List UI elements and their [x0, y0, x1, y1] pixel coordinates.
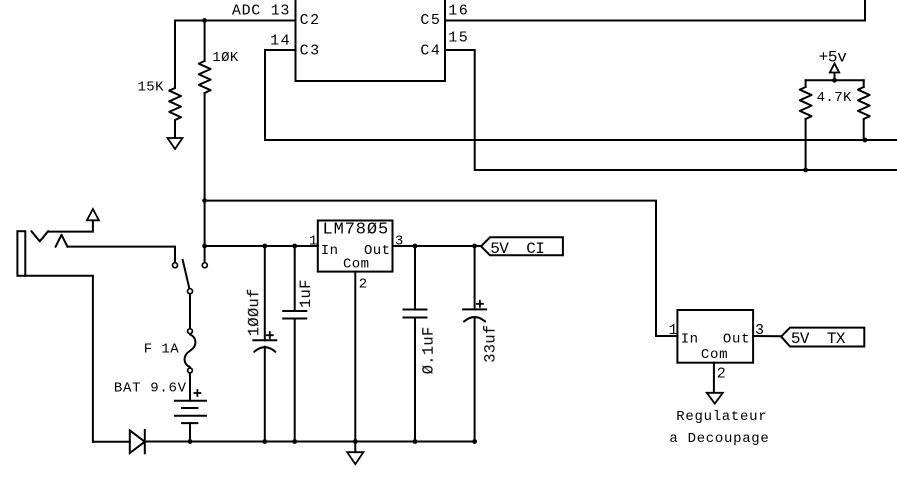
- wire U3 Out to 5V TX flag: [753, 335, 781, 337]
- svg-text:15K: 15K: [138, 80, 165, 96]
- junction bottom rail / 100uf: [262, 439, 267, 444]
- label F 1A: [144, 342, 179, 358]
- svg-text:Out: Out: [723, 331, 750, 347]
- regulator U3 (switching): [677, 310, 753, 363]
- svg-text:BAT 9.6V: BAT 9.6V: [114, 381, 187, 397]
- junction input rail / 10K column: [202, 244, 207, 249]
- svg-text:Regulateur: Regulateur: [676, 409, 767, 425]
- svg-text:4.7K: 4.7K: [817, 90, 852, 106]
- fuse F1 1A: [185, 329, 196, 373]
- power +5v arrow: [830, 64, 839, 81]
- pin label C4: [420, 43, 441, 60]
- wire +5v top rail: [806, 79, 864, 81]
- svg-text:C3: C3: [300, 43, 321, 60]
- net flag 5V TX: [781, 328, 864, 348]
- wire LM7805 Out to 5V CI flag: [393, 245, 481, 247]
- pin label C2: [300, 12, 321, 29]
- wire C3 pin14 down and across: [265, 50, 897, 140]
- svg-text:a Decoupage: a Decoupage: [669, 431, 769, 447]
- junction input rail / 1uF: [292, 244, 297, 249]
- junction +5v arrow: [832, 78, 837, 83]
- resistor R4 4.7K (right): [858, 80, 870, 140]
- junction C3 net / right 4.7K: [863, 138, 868, 143]
- svg-text:1: 1: [309, 233, 318, 249]
- label Out (U3): [723, 331, 750, 347]
- ground (main): [347, 452, 363, 464]
- label +5v: [819, 48, 848, 66]
- wire bottom ground rail: [145, 441, 475, 443]
- junction bottom rail / battery: [188, 439, 193, 444]
- label Out (U2): [364, 243, 390, 259]
- resistor R2 10K: [199, 21, 211, 263]
- junction node A (ADC / 10K / 15K): [202, 18, 207, 23]
- svg-text:16: 16: [448, 2, 469, 19]
- connector J1 (power jack): [17, 220, 175, 441]
- pin 1 (U3): [669, 322, 678, 339]
- label 0.1uF (vertical): [420, 327, 438, 375]
- resistor R3 4.7K (left): [800, 80, 812, 170]
- label LM7805: [323, 221, 390, 240]
- svg-text:C2: C2: [300, 12, 321, 29]
- capacitor C7 1uF: [283, 246, 306, 442]
- label In (U2): [321, 243, 339, 259]
- power arrow (jack tip): [87, 209, 99, 220]
- label 4.7K: [817, 90, 852, 106]
- capacitor C6 100uf: [253, 246, 276, 442]
- wire LM7805 Com (pin2) down to ground: [354, 272, 356, 453]
- label a Decoupage: [669, 431, 769, 447]
- pin number 14: [270, 33, 291, 50]
- label 33uf (vertical): [482, 325, 500, 363]
- label 100uf (vertical): [245, 288, 263, 336]
- label In (U3): [681, 331, 699, 347]
- label Regulateur: [676, 409, 767, 425]
- resistor R1 15K: [169, 21, 181, 139]
- junction C4 net / left 4.7K: [803, 168, 808, 173]
- label 15K: [138, 80, 165, 96]
- switch SW1: [173, 260, 208, 328]
- svg-text:In: In: [681, 331, 699, 347]
- pin 3 (U2): [395, 233, 404, 249]
- regulator U2 LM7805: [318, 221, 393, 272]
- svg-text:1ØK: 1ØK: [212, 50, 239, 66]
- svg-text:ADC 13: ADC 13: [232, 3, 290, 20]
- svg-text:1: 1: [669, 322, 678, 339]
- wire C5 pin16 up off top edge: [445, 0, 865, 21]
- svg-text:Ø.1uF: Ø.1uF: [420, 327, 438, 375]
- svg-text:5V TX: 5V TX: [791, 330, 846, 348]
- pin 3 (U3): [755, 322, 764, 339]
- svg-text:In: In: [321, 243, 339, 259]
- arrow down (U3 common): [707, 393, 723, 404]
- svg-text:5V CI: 5V CI: [490, 240, 544, 258]
- junction bottom rail / 0.1uF: [413, 439, 418, 444]
- label 1uF (vertical): [297, 279, 315, 308]
- wire node A down-rail to switching regulator input: [205, 201, 678, 336]
- wire ADC: pin13 to node A: [175, 20, 296, 22]
- svg-text:+5v: +5v: [819, 48, 848, 66]
- pin number 13 and net label ADC: [232, 3, 290, 20]
- junction out rail / 33uf: [472, 244, 477, 249]
- svg-text:2: 2: [359, 277, 368, 293]
- wire input rail to LM7805 In: [205, 245, 318, 247]
- pin 1 (U2): [309, 233, 318, 249]
- svg-text:1uF: 1uF: [297, 279, 315, 308]
- svg-text:F 1A: F 1A: [144, 342, 179, 358]
- svg-text:2: 2: [717, 365, 726, 382]
- ground (15K): [168, 138, 183, 149]
- svg-text:Com: Com: [701, 347, 728, 363]
- label BAT 9.6V: [114, 381, 187, 397]
- net flag 5V CI: [481, 237, 563, 258]
- junction bottom rail / pin2: [353, 439, 358, 444]
- junction out rail / 0.1uF: [413, 244, 418, 249]
- svg-text:Com: Com: [343, 257, 369, 273]
- diode D1: [93, 430, 145, 453]
- svg-text:33uf: 33uf: [482, 325, 500, 363]
- pin label C5: [420, 12, 441, 29]
- IC U1 (top, cut off at top edge): [296, 0, 446, 81]
- capacitor C9 33uf: [463, 246, 486, 442]
- pin label C3: [300, 43, 321, 60]
- svg-text:C4: C4: [420, 43, 441, 60]
- svg-text:15: 15: [448, 30, 469, 47]
- pin 2 (U2): [359, 277, 368, 293]
- battery BT1 9.6V: [175, 374, 206, 442]
- svg-text:LM78Ø5: LM78Ø5: [323, 221, 390, 240]
- wire C4 pin15 down and across: [445, 50, 897, 170]
- junction rail/10K at y=200.6: [202, 198, 207, 203]
- svg-text:1ØØuf: 1ØØuf: [245, 288, 263, 336]
- pin 2 (U3): [717, 365, 726, 382]
- junction bottom rail / 33uf: [472, 439, 477, 444]
- pin number 15: [448, 30, 469, 47]
- wire U3 Com pin2 down: [713, 363, 715, 393]
- svg-text:14: 14: [270, 33, 291, 50]
- pin number 16: [448, 2, 469, 19]
- capacitor C8 0.1uF: [404, 246, 427, 442]
- svg-text:C5: C5: [420, 12, 441, 29]
- junction input rail / 100uf: [262, 244, 267, 249]
- label Com (U3): [701, 347, 728, 363]
- label Com (U2): [343, 257, 369, 273]
- label 10K: [212, 50, 239, 66]
- junction bottom rail / 1uF: [292, 439, 297, 444]
